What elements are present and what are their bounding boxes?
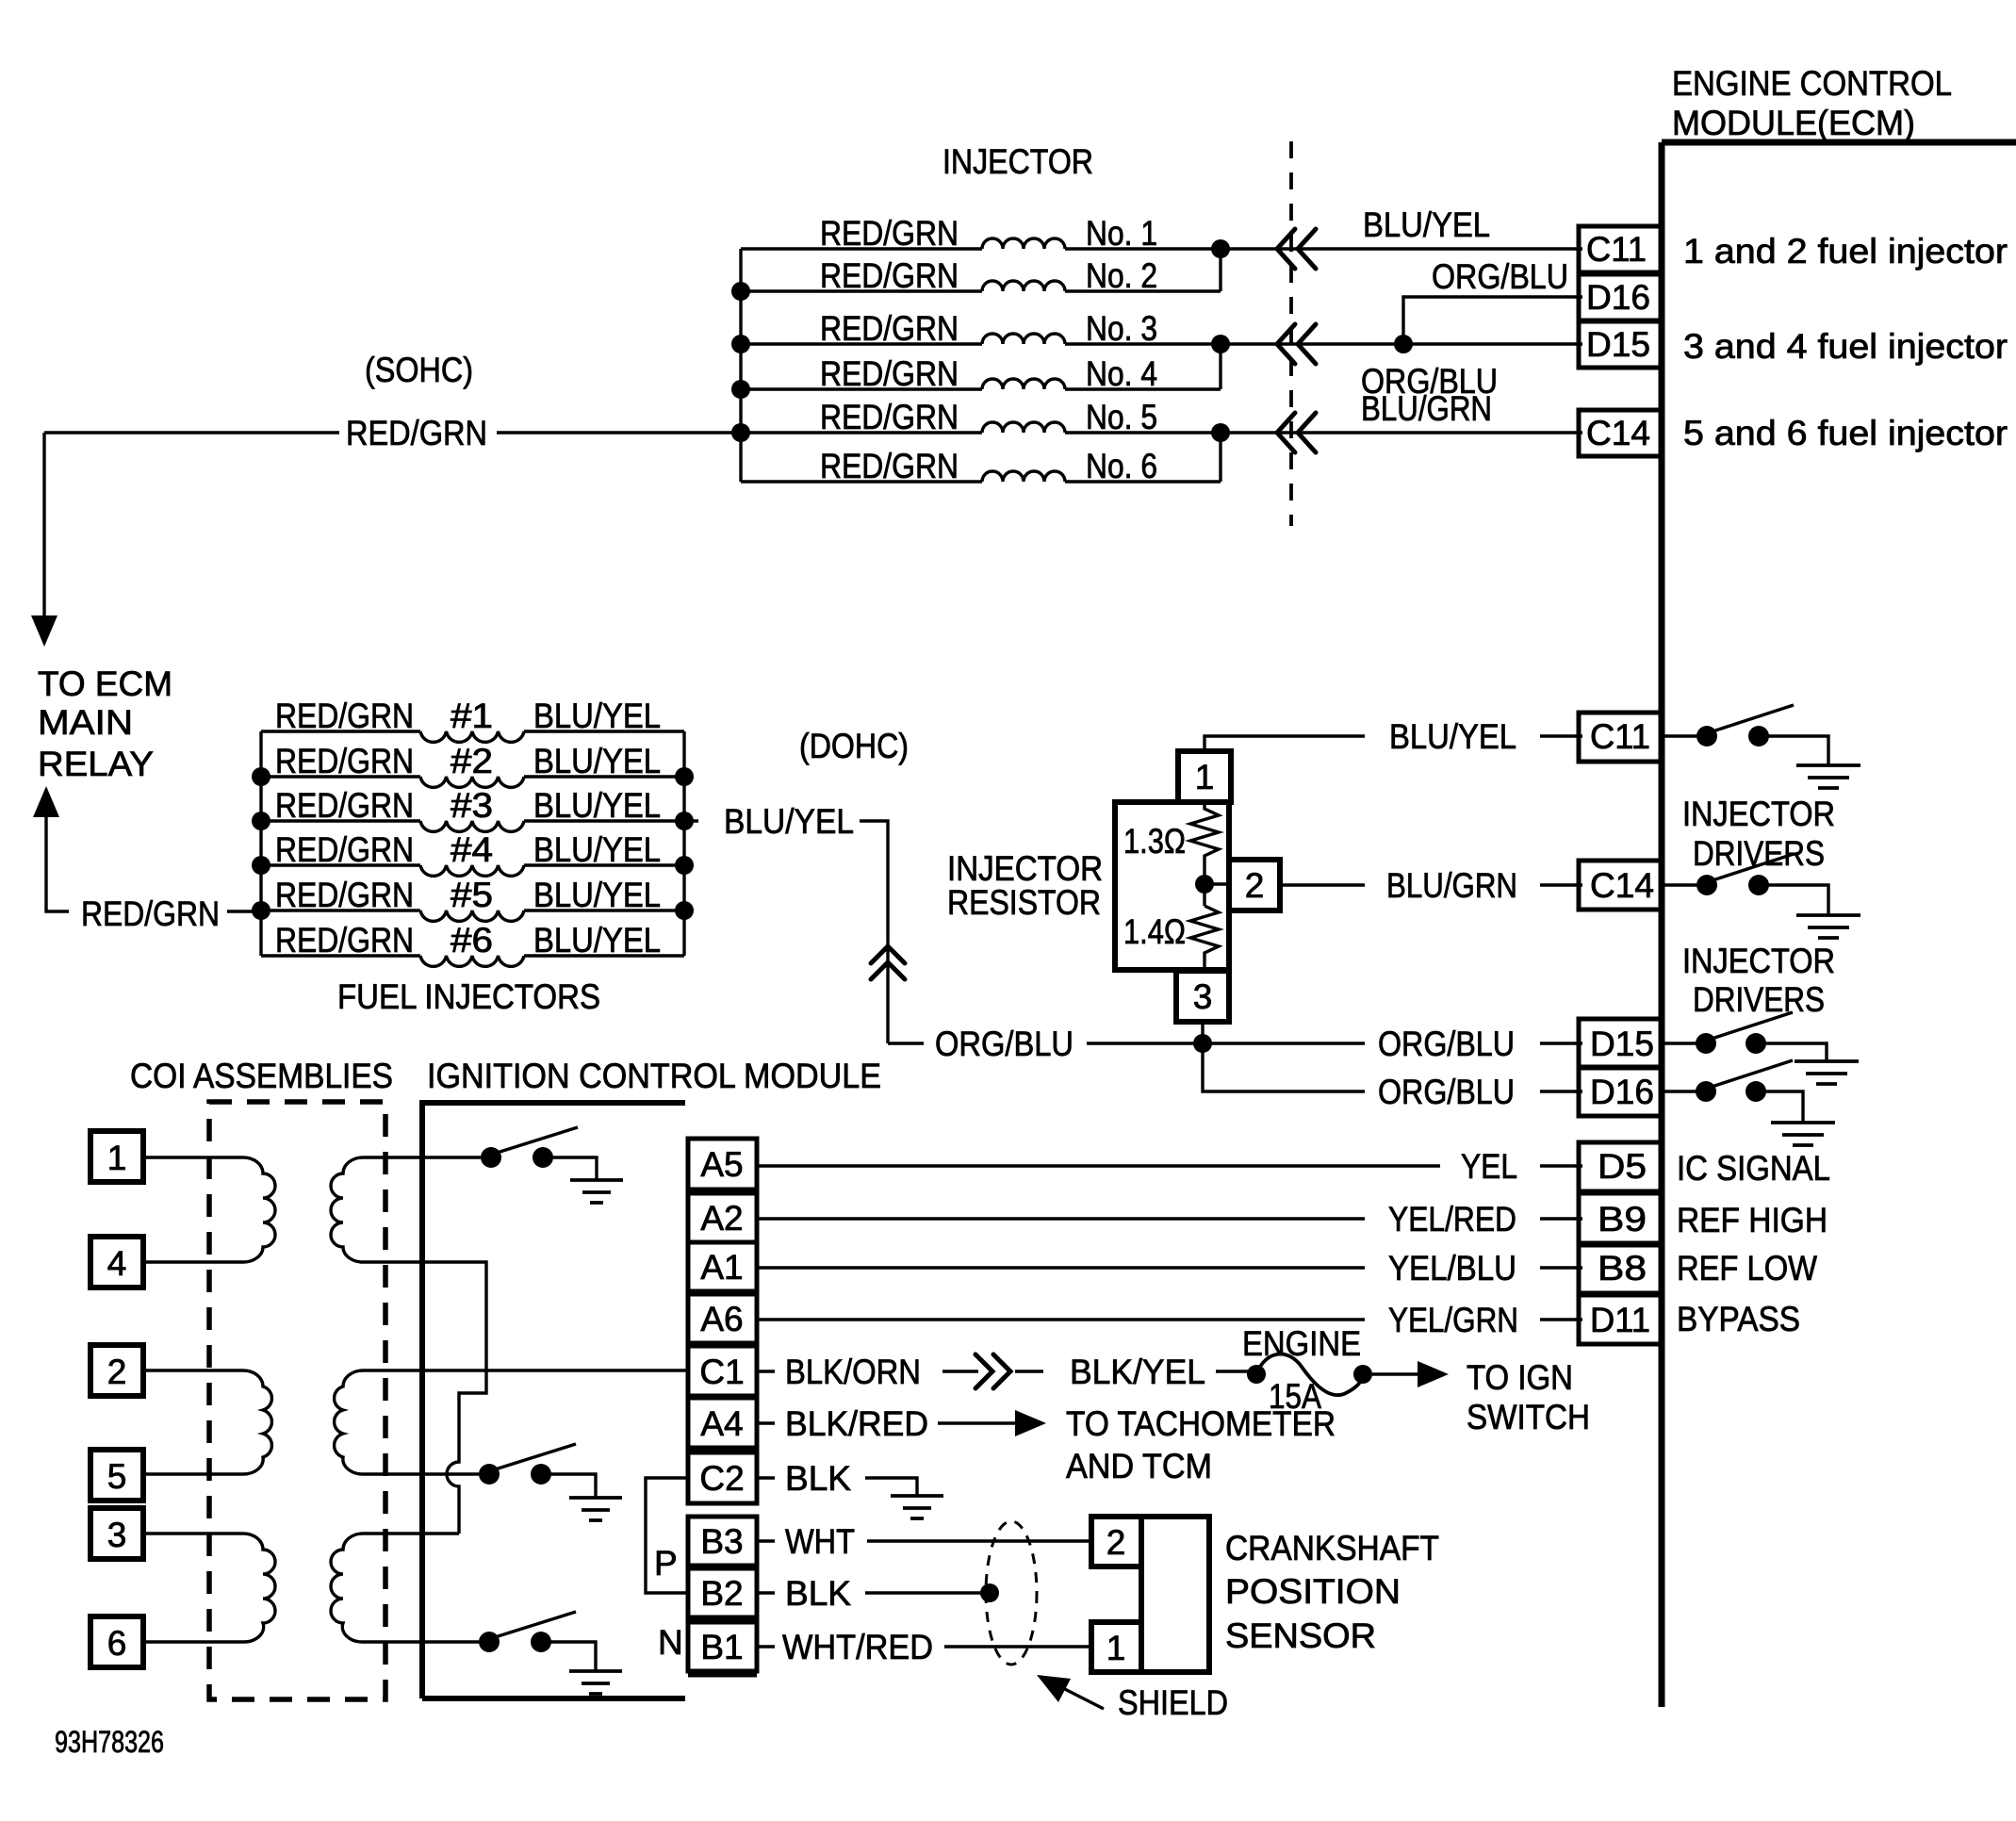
- svg-text:BLK: BLK: [785, 1574, 851, 1613]
- svg-text:#4: #4: [451, 830, 493, 869]
- wire resistor pin1 to BLU/YEL row: [1205, 736, 1365, 751]
- svg-text:A2: A2: [700, 1199, 743, 1238]
- svg-text:RED/GRN: RED/GRN: [275, 921, 414, 960]
- svg-text:SENSOR: SENSOR: [1225, 1616, 1376, 1655]
- injector No.2 coil row: [741, 256, 1221, 295]
- wire resistor center tap: [1203, 862, 1205, 906]
- COI 3 primary winding: [143, 1534, 275, 1642]
- resistor element 1.4 ohm: [1190, 906, 1219, 971]
- crankshaft sensor pin 2 box: [1091, 1517, 1141, 1567]
- wire BLU/YEL from DOHC bank: [684, 819, 698, 822]
- svg-text:RED/GRN: RED/GRN: [820, 309, 959, 348]
- DOHC fuel injector #4 row: [261, 830, 684, 876]
- svg-text:RED/GRN: RED/GRN: [275, 876, 414, 914]
- svg-text:No. 4: No. 4: [1086, 354, 1157, 393]
- wire COI2 secondary top to C1: [363, 1369, 688, 1371]
- svg-text:No. 6: No. 6: [1086, 447, 1157, 485]
- wire YEL from A5 to D5: [757, 1164, 1440, 1167]
- svg-text:P: P: [654, 1544, 678, 1583]
- switch injector driver C14: [1662, 883, 1698, 886]
- svg-text:B2: B2: [700, 1574, 743, 1613]
- injector resistor pin 2 box: [1229, 860, 1280, 910]
- shield arrow: [1052, 1682, 1104, 1709]
- injector resistor outer box: [1115, 802, 1229, 970]
- svg-text:SHIELD: SHIELD: [1118, 1683, 1228, 1722]
- svg-text:B1: B1: [700, 1628, 743, 1666]
- ignition control module box: [422, 1103, 685, 1698]
- injector No.5 coil row: [741, 398, 1221, 436]
- wire ECM top edge: [1662, 139, 2016, 146]
- wire up arrow from RED/GRN: [46, 814, 69, 911]
- svg-text:C14: C14: [1586, 414, 1650, 452]
- coil terminal box 3: [90, 1508, 143, 1559]
- wire B1 WHT/RED stub: [757, 1645, 775, 1648]
- arrow to tachometer: [938, 1421, 1020, 1424]
- wire COI3 secondary top link: [363, 1532, 459, 1534]
- wire ECM main vertical bus: [1659, 142, 1665, 1707]
- svg-text:ENGINE: ENGINE: [1242, 1324, 1361, 1363]
- ICM pin box B3: [688, 1517, 757, 1566]
- ICM pin box A4: [688, 1398, 757, 1448]
- COI 2 primary winding: [143, 1370, 271, 1474]
- wire C1 BLK/ORN stub: [757, 1370, 775, 1372]
- svg-text:D16: D16: [1590, 1073, 1654, 1111]
- svg-text:REF LOW: REF LOW: [1677, 1249, 1817, 1288]
- wire junction to ORG/BLU D15 row: [1203, 1042, 1365, 1044]
- wire resistor pin3 down to junction: [1201, 1022, 1204, 1043]
- wire COI1 secondary top to switch: [363, 1156, 481, 1158]
- svg-text:5: 5: [107, 1457, 127, 1496]
- wire junction down to D16 row: [1203, 1043, 1365, 1091]
- resistor element 1.3 ohm: [1190, 802, 1219, 862]
- connector chevrons row1: [1277, 229, 1316, 269]
- ground C2 BLK: [891, 1496, 943, 1518]
- injector No.4 coil row: [741, 354, 1221, 393]
- svg-text:1: 1: [107, 1139, 127, 1177]
- svg-text:D5: D5: [1598, 1147, 1647, 1186]
- svg-text:REF HIGH: REF HIGH: [1677, 1201, 1828, 1239]
- svg-text:RESISTOR: RESISTOR: [947, 883, 1101, 922]
- wire COI3 secondary bottom to switch: [363, 1640, 479, 1643]
- svg-text:BLU/YEL: BLU/YEL: [724, 802, 854, 841]
- svg-text:BLU/GRN: BLU/GRN: [1361, 389, 1492, 428]
- DOHC fuel injector #6 row: [261, 921, 684, 966]
- svg-text:POSITION: POSITION: [1225, 1572, 1401, 1611]
- wire drop to ECM main relay: [42, 433, 45, 617]
- DOHC fuel injector #1 row: [261, 697, 684, 742]
- svg-text:RED/GRN: RED/GRN: [275, 830, 414, 869]
- node junction dot under resistor pin 3: [1193, 1034, 1212, 1053]
- COI assemblies dashed box: [209, 1102, 385, 1699]
- wire SOHC left bus: [739, 249, 742, 482]
- wire tap to pin 2: [1205, 882, 1229, 885]
- wire BLU/YEL elbow down: [860, 821, 888, 1043]
- svg-text:BLK/YEL: BLK/YEL: [1070, 1353, 1205, 1391]
- coil terminal box 1: [90, 1131, 143, 1182]
- svg-text:1 and 2 fuel injector: 1 and 2 fuel injector: [1683, 232, 2008, 271]
- svg-text:WHT/RED: WHT/RED: [782, 1628, 933, 1666]
- svg-text:BLU/YEL: BLU/YEL: [533, 742, 661, 780]
- P bracket C2 to B2: [646, 1478, 688, 1593]
- svg-text:YEL/GRN: YEL/GRN: [1388, 1301, 1518, 1339]
- svg-text:A1: A1: [700, 1248, 743, 1287]
- ICM pin box C1: [688, 1346, 757, 1396]
- svg-text:INJECTOR: INJECTOR: [942, 142, 1093, 181]
- ICM pin box B1: [688, 1622, 757, 1671]
- ICM pin box A5: [688, 1139, 757, 1189]
- svg-text:RED/GRN: RED/GRN: [275, 742, 414, 780]
- svg-text:TO TACHOMETER: TO TACHOMETER: [1066, 1404, 1336, 1443]
- node dots on SOHC right bus: [1211, 239, 1230, 258]
- wire SOHC right bus pair 5-6: [1219, 433, 1221, 482]
- svg-text:C2: C2: [699, 1459, 744, 1498]
- svg-text:ORG/BLU: ORG/BLU: [1378, 1073, 1515, 1111]
- wire BLK to shield: [865, 1591, 990, 1594]
- svg-text:BLK/ORN: BLK/ORN: [785, 1353, 921, 1391]
- svg-text:2: 2: [107, 1353, 127, 1391]
- node dots DOHC right bus: [675, 767, 694, 786]
- DOHC fuel injector #5 row: [261, 876, 684, 921]
- wire BLK/YEL to fuse: [1216, 1370, 1250, 1372]
- svg-text:C11: C11: [1586, 230, 1647, 269]
- svg-text:BLU/YEL: BLU/YEL: [533, 876, 661, 914]
- pin box C14 (injector driver): [1579, 861, 1662, 910]
- svg-text:WHT: WHT: [785, 1522, 855, 1561]
- svg-text:TO ECM: TO ECM: [38, 664, 172, 703]
- wire B3 WHT stub: [757, 1539, 775, 1542]
- wire after chevrons: [1015, 1370, 1043, 1372]
- svg-text:INJECTOR: INJECTOR: [947, 849, 1103, 888]
- svg-text:#5: #5: [451, 876, 493, 914]
- wire ORG/BLU into D16: [1540, 1090, 1582, 1092]
- crankshaft sensor pin 1 box: [1091, 1622, 1141, 1672]
- pin box C11 (injector driver): [1579, 713, 1662, 762]
- node dot on D15 wire: [1394, 335, 1413, 353]
- svg-text:ENGINE CONTROL: ENGINE CONTROL: [1672, 64, 1952, 103]
- svg-text:RED/GRN: RED/GRN: [820, 354, 959, 393]
- ground ICM switch 3: [569, 1671, 622, 1694]
- svg-text:3: 3: [107, 1516, 127, 1554]
- svg-text:6: 6: [107, 1624, 127, 1663]
- svg-text:A4: A4: [700, 1404, 743, 1443]
- svg-text:A5: A5: [700, 1145, 743, 1184]
- connector chevrons row3: [1277, 324, 1316, 364]
- switch ICM 2: [479, 1464, 500, 1485]
- svg-text:DRIVERS: DRIVERS: [1693, 834, 1825, 873]
- svg-text:1: 1: [1106, 1629, 1126, 1667]
- svg-text:2: 2: [1245, 866, 1265, 905]
- wire A4 BLK/RED stub: [757, 1421, 775, 1424]
- svg-text:BLU/GRN: BLU/GRN: [1386, 866, 1517, 905]
- pin box B9 (ref high): [1579, 1193, 1662, 1243]
- svg-text:BLU/YEL: BLU/YEL: [1389, 717, 1516, 756]
- injector resistor pin 1 box: [1178, 751, 1231, 802]
- connector chevrons right: [975, 1354, 1010, 1388]
- svg-text:B3: B3: [700, 1522, 743, 1561]
- svg-text:(SOHC): (SOHC): [365, 351, 473, 389]
- svg-text:No. 5: No. 5: [1086, 398, 1157, 436]
- COI 3 secondary winding: [331, 1534, 363, 1642]
- svg-text:TO IGN: TO IGN: [1467, 1358, 1573, 1397]
- svg-text:3: 3: [1193, 977, 1213, 1016]
- svg-text:D15: D15: [1586, 325, 1650, 364]
- injector No.6 coil row: [741, 447, 1221, 485]
- svg-text:No. 3: No. 3: [1086, 309, 1157, 348]
- injector No.3 coil row: [741, 309, 1221, 348]
- svg-text:C1: C1: [699, 1353, 744, 1391]
- svg-text:YEL/RED: YEL/RED: [1388, 1200, 1516, 1239]
- wire ORG/BLU into D15: [1540, 1042, 1582, 1044]
- wire to pass-through chevrons: [942, 1370, 978, 1372]
- wire BLU/GRN into C14: [1540, 883, 1582, 886]
- wire COI2 secondary bottom to switch: [363, 1472, 479, 1475]
- pin box C14: [1579, 410, 1662, 456]
- DOHC fuel injector #2 row: [261, 742, 684, 787]
- pin box D15 (injector driver): [1579, 1019, 1662, 1067]
- svg-text:D15: D15: [1590, 1025, 1654, 1063]
- pin box B8 (ref low): [1579, 1245, 1662, 1293]
- wire DOHC left bus: [259, 731, 262, 956]
- svg-text:RED/GRN: RED/GRN: [275, 786, 414, 825]
- COI 1 primary winding: [143, 1157, 275, 1262]
- wire DOHC right bus: [682, 731, 685, 956]
- svg-text:93H78326: 93H78326: [55, 1725, 164, 1759]
- svg-text:YEL/BLU: YEL/BLU: [1388, 1249, 1516, 1288]
- connector chevrons row5: [1277, 413, 1316, 452]
- svg-text:5 and 6 fuel injector: 5 and 6 fuel injector: [1683, 414, 2008, 452]
- svg-text:#2: #2: [451, 742, 493, 780]
- pin box C11 (1 and 2 fuel injector): [1579, 226, 1662, 272]
- svg-text:MODULE(ECM): MODULE(ECM): [1672, 104, 1915, 142]
- svg-text:AND TCM: AND TCM: [1066, 1447, 1212, 1485]
- svg-text:A6: A6: [700, 1300, 743, 1338]
- svg-text:No. 2: No. 2: [1086, 256, 1157, 295]
- svg-text:BLU/YEL: BLU/YEL: [1363, 205, 1490, 244]
- arrowhead to IGN switch: [1418, 1361, 1449, 1387]
- wire ORG/BLU to D15: [1221, 342, 1582, 345]
- pin box D11 (bypass): [1579, 1295, 1662, 1344]
- svg-text:RED/GRN: RED/GRN: [820, 398, 959, 436]
- wire YEL into D5: [1540, 1164, 1582, 1167]
- connector chevrons up: [871, 946, 905, 979]
- wire BLU/YEL to C11: [1221, 247, 1582, 250]
- shield ellipse dashed: [986, 1521, 1037, 1665]
- svg-text:N: N: [658, 1623, 683, 1662]
- crankshaft sensor body: [1141, 1517, 1209, 1672]
- svg-text:No. 1: No. 1: [1086, 214, 1157, 253]
- svg-text:3 and 4 fuel injector: 3 and 4 fuel injector: [1683, 327, 2008, 366]
- coil terminal box 6: [90, 1616, 143, 1667]
- injector No.1 coil row: [741, 214, 1221, 253]
- switch injector driver D15: [1662, 1042, 1697, 1044]
- switch ICM 3: [479, 1632, 500, 1652]
- svg-text:BLU/YEL: BLU/YEL: [533, 786, 661, 825]
- svg-text:ORG/BLU: ORG/BLU: [935, 1025, 1074, 1063]
- wire YEL/GRN into D11: [1540, 1318, 1582, 1321]
- ground after C11 driver: [1796, 765, 1860, 788]
- svg-text:(DOHC): (DOHC): [799, 727, 909, 765]
- coil terminal box 4: [90, 1237, 143, 1288]
- wire COI1 secondary bottom jog: [363, 1262, 486, 1534]
- wire C2 BLK stub: [757, 1476, 775, 1479]
- ground after C14 driver: [1796, 915, 1860, 938]
- COI 1 secondary winding: [331, 1157, 363, 1262]
- svg-text:RED/GRN: RED/GRN: [346, 414, 487, 452]
- svg-text:BLU/YEL: BLU/YEL: [533, 697, 661, 735]
- wire BLU/GRN to C14: [1221, 431, 1582, 434]
- svg-text:#1: #1: [451, 697, 493, 735]
- svg-text:BLK: BLK: [785, 1459, 851, 1498]
- node dot shield connection: [980, 1583, 999, 1602]
- svg-text:COI ASSEMBLIES: COI ASSEMBLIES: [130, 1057, 393, 1095]
- svg-text:RED/GRN: RED/GRN: [820, 214, 959, 253]
- ICM pin box C2: [688, 1452, 757, 1503]
- svg-text:IC SIGNAL: IC SIGNAL: [1677, 1149, 1830, 1188]
- pin box D16 (injector driver): [1579, 1068, 1662, 1116]
- DOHC fuel injector #3 row: [261, 786, 684, 831]
- pin box D16: [1579, 274, 1662, 320]
- wire fuse to IGN switch: [1372, 1372, 1418, 1375]
- svg-text:#3: #3: [451, 786, 493, 825]
- wire SOHC right bus pair 3-4: [1219, 344, 1221, 389]
- wire ORG/BLU to D16: [1403, 297, 1582, 344]
- wire YEL/RED from A2 to B9: [757, 1217, 1365, 1220]
- ICM pin box A2: [688, 1193, 757, 1242]
- ECM engine control module outline: [1662, 64, 2016, 1707]
- node dots DOHC left bus: [252, 767, 270, 786]
- node resistor center tap dot: [1195, 875, 1214, 894]
- svg-text:INJECTOR: INJECTOR: [1682, 942, 1835, 980]
- svg-text:#6: #6: [451, 921, 493, 960]
- svg-text:RELAY: RELAY: [38, 745, 154, 783]
- svg-text:YEL: YEL: [1461, 1147, 1517, 1186]
- svg-text:ORG/BLU: ORG/BLU: [1378, 1025, 1515, 1063]
- ICM pin box A6: [688, 1294, 757, 1343]
- coil terminal box 5: [90, 1450, 143, 1501]
- svg-text:INJECTOR: INJECTOR: [1682, 795, 1835, 833]
- svg-text:CRANKSHAFT: CRANKSHAFT: [1225, 1529, 1439, 1567]
- svg-text:BLK/RED: BLK/RED: [785, 1404, 928, 1443]
- injector resistor pin 3 box: [1176, 971, 1229, 1022]
- ICM pin box A1: [688, 1242, 757, 1291]
- svg-text:RED/GRN: RED/GRN: [81, 894, 220, 933]
- svg-text:2: 2: [1106, 1523, 1126, 1562]
- switch injector driver D16: [1662, 1090, 1697, 1092]
- svg-text:IGNITION CONTROL MODULE: IGNITION CONTROL MODULE: [427, 1057, 881, 1095]
- pin box D5 (IC signal): [1579, 1142, 1662, 1191]
- wire ORG/BLU to junction: [1087, 1042, 1203, 1044]
- svg-text:ORG/BLU: ORG/BLU: [1432, 257, 1568, 296]
- svg-text:BLU/YEL: BLU/YEL: [533, 830, 661, 869]
- wire RED/GRN feed to SOHC bank: [44, 431, 741, 434]
- arrowhead down to ECM main relay: [31, 615, 57, 647]
- wire ICM pin column bottom cap: [688, 1673, 757, 1678]
- COI 2 secondary winding: [335, 1370, 363, 1474]
- svg-text:MAIN: MAIN: [38, 703, 133, 742]
- svg-text:D16: D16: [1586, 278, 1650, 317]
- node dots on SOHC left bus: [731, 282, 750, 301]
- wire BLU/YEL into C11: [1540, 734, 1582, 737]
- svg-text:BLU/YEL: BLU/YEL: [533, 921, 661, 960]
- svg-text:1: 1: [1195, 758, 1215, 796]
- wire YEL/BLU from A1 to B8: [757, 1266, 1365, 1269]
- ICM pin box B2: [688, 1568, 757, 1617]
- arrowhead up to ECM main relay: [33, 786, 59, 817]
- svg-text:B9: B9: [1598, 1200, 1647, 1239]
- switch ICM 1: [481, 1147, 501, 1168]
- wire RED/GRN to DOHC bus: [227, 910, 261, 912]
- coil terminal box 2: [90, 1345, 143, 1396]
- wire SOHC right bus pair 1-2: [1219, 249, 1221, 291]
- svg-text:RED/GRN: RED/GRN: [820, 447, 959, 485]
- wire YEL/GRN from A6 to D11: [757, 1318, 1365, 1321]
- svg-text:C14: C14: [1590, 866, 1654, 905]
- wire resistor pin2 to BLU/GRN row: [1280, 883, 1365, 886]
- svg-text:FUEL INJECTORS: FUEL INJECTORS: [337, 977, 600, 1016]
- wire ORG/BLU run: [888, 1042, 924, 1044]
- wire WHT to sensor pin 2: [867, 1539, 1091, 1542]
- svg-text:DRIVERS: DRIVERS: [1693, 980, 1825, 1019]
- ground ICM switch 2: [569, 1498, 622, 1520]
- svg-text:C11: C11: [1590, 717, 1650, 756]
- svg-text:RED/GRN: RED/GRN: [820, 256, 959, 295]
- wire YEL/RED into B9: [1540, 1217, 1582, 1220]
- fuse ENGINE 15A: [1247, 1365, 1266, 1384]
- wire B2 BLK stub: [757, 1591, 775, 1594]
- wire YEL/BLU into B8: [1540, 1266, 1582, 1269]
- ground ICM switch 1: [570, 1180, 623, 1203]
- svg-text:1.3Ω: 1.3Ω: [1123, 822, 1186, 861]
- ground after D15 driver: [1795, 1061, 1859, 1084]
- switch injector driver C11: [1662, 734, 1698, 737]
- svg-text:B8: B8: [1598, 1249, 1647, 1288]
- svg-text:4: 4: [107, 1244, 127, 1283]
- svg-text:BYPASS: BYPASS: [1677, 1300, 1800, 1338]
- svg-text:D11: D11: [1590, 1301, 1650, 1339]
- wire WHT/RED to sensor pin 1: [944, 1645, 1091, 1648]
- dashed connector line SOHC: [1289, 141, 1293, 526]
- wire BLK to ground: [865, 1478, 917, 1496]
- svg-text:1.4Ω: 1.4Ω: [1123, 912, 1186, 951]
- ground after D16 driver: [1771, 1123, 1835, 1145]
- pin box D15: [1579, 321, 1662, 368]
- svg-text:SWITCH: SWITCH: [1467, 1398, 1590, 1436]
- svg-text:RED/GRN: RED/GRN: [275, 697, 414, 735]
